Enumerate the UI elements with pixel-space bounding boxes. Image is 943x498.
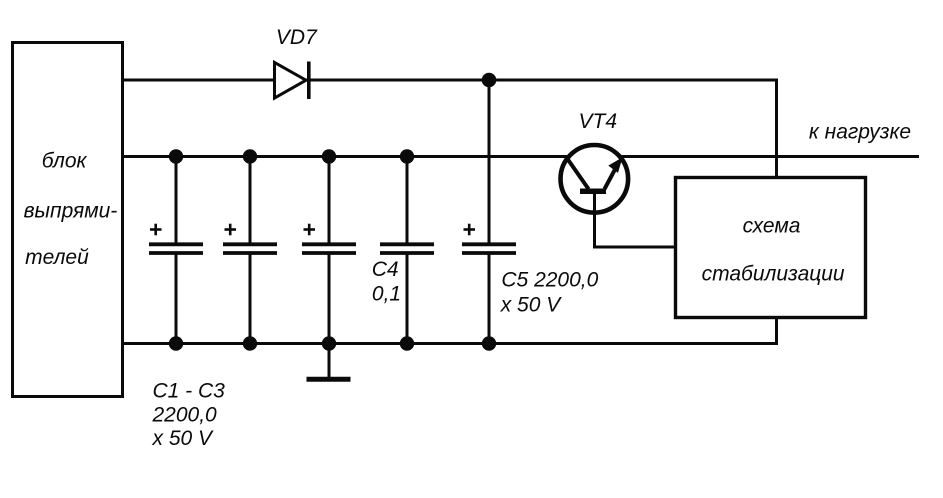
- node: junction C5 bottom: [482, 336, 496, 350]
- capacitor C5: [462, 80, 516, 344]
- node: junction C3 bottom: [322, 336, 336, 350]
- node: junction dot top rail / C5 branch: [482, 73, 497, 88]
- node: junction C2 top: [243, 149, 257, 163]
- node: junction C2 bottom: [243, 336, 257, 350]
- wire vertical drop from top rail to stabilizer box top: [775, 79, 778, 178]
- svg-text:0,1: 0,1: [372, 283, 401, 306]
- svg-text:телей: телей: [25, 246, 89, 269]
- wire top rail from rectifier to stabilizer drop: [123, 79, 778, 82]
- svg-text:C5 2200,0: C5 2200,0: [501, 269, 598, 292]
- svg-text:C1 - C3: C1 - C3: [153, 379, 226, 402]
- wire vertical from stabilizer box bottom to ground rail: [775, 317, 778, 344]
- wire bottom ground rail: [123, 342, 778, 345]
- wire base lead vertical: [593, 193, 596, 249]
- rectifier block: [13, 43, 123, 397]
- capacitor C2: [223, 156, 277, 344]
- svg-text:2200,0: 2200,0: [152, 403, 218, 426]
- wire mid output rail: [123, 155, 919, 158]
- svg-text:выпрями-: выпрями-: [24, 199, 118, 222]
- svg-text:x 50 V: x 50 V: [152, 427, 215, 450]
- svg-text:C4: C4: [372, 258, 399, 281]
- svg-text:стабилизации: стабилизации: [702, 262, 845, 285]
- wire base lead horizontal to stabilizer: [595, 246, 676, 249]
- node: junction C1 bottom: [169, 336, 183, 350]
- svg-text:к нагрузке: к нагрузке: [809, 120, 911, 143]
- capacitor C3: [302, 156, 356, 344]
- svg-text:VD7: VD7: [276, 26, 318, 49]
- node: junction C3 top: [322, 149, 336, 163]
- stabilizer block: [676, 178, 866, 318]
- node: junction C1 top: [169, 149, 183, 163]
- svg-text:блок: блок: [42, 150, 88, 173]
- capacitor C4: [380, 156, 434, 344]
- svg-text:VT4: VT4: [579, 110, 618, 133]
- transistor VT4: [561, 145, 629, 213]
- capacitor C1: [149, 156, 203, 344]
- ground: [307, 343, 351, 379]
- node: junction C4 bottom: [400, 336, 414, 350]
- diode VD7: [275, 62, 309, 100]
- svg-text:схема: схема: [743, 215, 801, 238]
- node: junction C4 top: [400, 149, 414, 163]
- svg-text:x 50 V: x 50 V: [500, 294, 563, 317]
